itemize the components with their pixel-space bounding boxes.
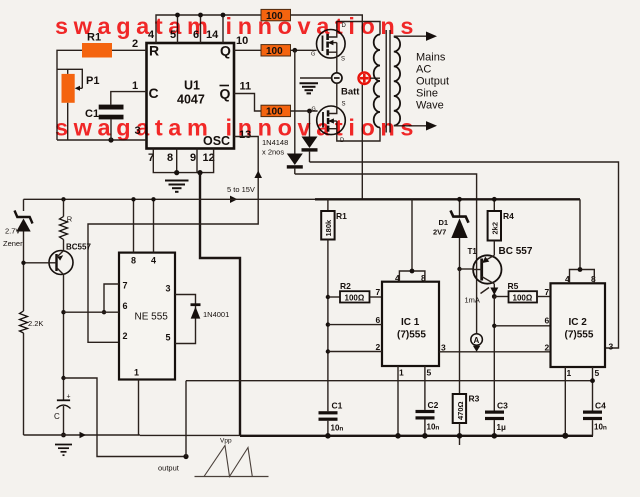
arrow right on supply rail: [230, 196, 238, 203]
diode D3 1N4148 lower: [287, 50, 303, 174]
ground symbol C: [55, 445, 72, 456]
MOSFET Q2 bottom: [312, 102, 346, 145]
svg-text:6: 6: [376, 315, 381, 325]
svg-text:A: A: [474, 336, 480, 345]
svg-text:T1: T1: [468, 247, 478, 256]
resistor R1 180k: [321, 199, 334, 239]
wire D1 down to R3: [459, 269, 461, 394]
svg-text:Q: Q: [220, 86, 231, 102]
wire Q2 drain to primary bottom: [337, 128, 380, 142]
node C1 bottom junction: [108, 137, 113, 142]
diode 1N4001: [191, 303, 201, 318]
svg-text:5: 5: [595, 368, 600, 378]
svg-text:C1: C1: [332, 401, 343, 411]
svg-text:x 2nos: x 2nos: [262, 148, 284, 157]
svg-text:R: R: [67, 215, 73, 224]
svg-text:(7)555: (7)555: [397, 330, 426, 341]
resistor R3 470: [453, 394, 466, 445]
node D1-base: [457, 267, 461, 271]
svg-text:Vpp: Vpp: [220, 438, 232, 445]
svg-text:10n: 10n: [594, 423, 607, 432]
wire pin14 stub: [222, 15, 224, 43]
svg-text:IC 1: IC 1: [401, 317, 420, 328]
svg-text:G: G: [312, 107, 316, 113]
wire plus to center tap: [370, 77, 380, 79]
node rail R: [61, 197, 65, 201]
svg-text:Zener: Zener: [3, 239, 23, 248]
svg-text:5 to 15V: 5 to 15V: [227, 185, 255, 194]
svg-text:AC: AC: [416, 64, 431, 76]
svg-text:C3: C3: [497, 401, 508, 411]
transformer core: [385, 30, 387, 133]
arrow up on pin13 drop: [254, 171, 262, 179]
capacitor C1 10n: [319, 401, 344, 436]
wire NE555 pin4 supply: [153, 199, 155, 252]
svg-text:Wave: Wave: [416, 100, 444, 112]
battery minus terminal: [332, 73, 342, 83]
svg-text:Output: Output: [416, 76, 449, 88]
wire C1 bottom: [110, 119, 112, 140]
svg-text:P1: P1: [86, 75, 99, 87]
svg-text:R3: R3: [469, 394, 480, 404]
svg-text:470Ω: 470Ω: [456, 401, 465, 420]
svg-text:BC 557: BC 557: [499, 246, 533, 257]
diode D4 1N4148 upper: [302, 111, 318, 162]
svg-text:10n: 10n: [427, 423, 440, 432]
capacitor C3 1u: [485, 401, 508, 436]
svg-text:4: 4: [151, 256, 156, 266]
wire IC1 pin3 to IC2 pin2: [439, 351, 551, 353]
svg-text:BC557: BC557: [66, 243, 91, 252]
svg-text:(7)555: (7)555: [565, 330, 594, 341]
wire NE555 pin8 supply: [133, 199, 135, 252]
svg-text:5: 5: [166, 333, 171, 343]
node pin14 top: [221, 13, 226, 18]
svg-text:8: 8: [131, 256, 136, 266]
node A marker: [471, 334, 483, 352]
bottom rail thin: [140, 434, 240, 436]
svg-text:D1: D1: [439, 218, 449, 227]
resistor 2.2K (zigzag): [20, 311, 28, 435]
svg-text:Q: Q: [220, 43, 231, 59]
wire pin5 stub: [177, 15, 179, 43]
node pin5 top: [175, 13, 180, 18]
wire pin6 line: [64, 311, 120, 313]
wire IC2 pin5 to C4: [592, 367, 594, 411]
wire P1 bottom lead: [67, 103, 69, 140]
wire 180k down to C1: [327, 240, 329, 412]
svg-text:Sine: Sine: [416, 88, 438, 100]
arrow on ground line: [80, 432, 87, 438]
wire IC1 pin2: [328, 351, 382, 353]
transistor T1 BC557: [473, 255, 501, 283]
svg-text:NE 555: NE 555: [135, 312, 169, 323]
svg-text:2: 2: [376, 342, 381, 352]
IC1 (7)555 body: [382, 282, 439, 366]
svg-text:1mA: 1mA: [465, 296, 480, 305]
svg-text:swagatam innovations: swagatam innovations: [55, 115, 419, 141]
wire pin6 stub: [200, 15, 202, 43]
svg-text:C: C: [54, 412, 60, 421]
node output: [183, 454, 188, 459]
potentiometer P1: [62, 74, 75, 103]
svg-text:C: C: [149, 85, 159, 101]
svg-text:2.7V: 2.7V: [5, 227, 20, 236]
wire secondary bottom output: [394, 125, 430, 127]
svg-text:8: 8: [591, 274, 596, 284]
svg-text:1: 1: [399, 368, 404, 378]
svg-text:3: 3: [609, 342, 614, 352]
svg-text:R5: R5: [508, 281, 519, 291]
svg-text:Batt: Batt: [341, 87, 360, 98]
wire P1 top jog: [57, 69, 82, 88]
wire secondary top output: [394, 35, 430, 37]
wire supply resistor right down to rail: [291, 15, 363, 199]
wire ground thick to bottom rail: [200, 173, 240, 436]
zener 2.7V: [15, 199, 33, 311]
wire pin11 to gate resistor: [234, 94, 261, 112]
waveform sawtooth: [195, 438, 269, 477]
wire Q1 drain to primary top: [337, 22, 380, 35]
wire T1 base to D1 line: [460, 268, 474, 270]
svg-text:6: 6: [123, 301, 128, 311]
wire Q1 source to battery minus: [336, 57, 338, 72]
wire P1 wiper arrow: [77, 87, 83, 89]
capacitor C1: [85, 105, 124, 120]
capacitor C2 10n: [416, 400, 440, 436]
svg-text:+: +: [67, 394, 71, 401]
wire pin10 to gate resistor: [234, 49, 261, 51]
wire C top to output: [64, 378, 187, 457]
svg-text:2V7: 2V7: [433, 228, 446, 237]
svg-text:2.2K: 2.2K: [28, 319, 43, 328]
capacitor C4 10n: [583, 401, 607, 436]
svg-text:3: 3: [441, 343, 446, 353]
bottom rail thick: [240, 435, 593, 437]
svg-text:2: 2: [132, 38, 138, 50]
svg-text:180k: 180k: [324, 219, 333, 237]
IC U1 4047 body: [147, 43, 235, 149]
ground line bottom left: [24, 434, 141, 436]
resistor R (zigzag): [60, 199, 68, 250]
svg-text:1: 1: [134, 368, 139, 378]
wire T1 collector down with 1mA arrow: [493, 284, 495, 297]
svg-text:7: 7: [376, 287, 381, 297]
ground 4047 bracket: [153, 149, 213, 173]
capacitor C electrolytic: [54, 394, 71, 436]
wire P1 top lead: [67, 69, 69, 74]
svg-text:U1: U1: [184, 79, 200, 93]
wire T1 collector to pin6 IC2 and C3: [493, 297, 495, 411]
wire gate1 node: [291, 49, 317, 51]
svg-text:5: 5: [427, 368, 432, 378]
svg-text:6: 6: [545, 316, 550, 326]
wire IC2 pin6: [494, 325, 550, 327]
svg-text:100Ω: 100Ω: [345, 294, 365, 303]
svg-text:R2: R2: [340, 281, 351, 291]
svg-text:9: 9: [190, 152, 196, 164]
resistor R4 2k2: [488, 197, 501, 255]
wire bottom to pin3: [57, 139, 147, 141]
supply rail 5-15V: [24, 198, 316, 200]
svg-text:8: 8: [167, 152, 173, 164]
wire IC1 pin5 to C2: [424, 366, 426, 410]
wire IC2 pin1 down: [564, 367, 566, 436]
svg-text:G: G: [311, 52, 315, 58]
resistor R5 100: [494, 291, 550, 302]
svg-text:4047: 4047: [177, 93, 205, 107]
wire IC1 pin6: [328, 324, 382, 326]
wire collector down: [63, 275, 65, 400]
wire pin13 to NE555 pin2: [88, 137, 258, 343]
svg-text:1μ: 1μ: [497, 423, 506, 432]
node C ground: [61, 433, 66, 438]
ground symbol battery: [300, 83, 319, 93]
wire gate2 node: [291, 110, 318, 112]
resistor 100 (Qbar gate): [261, 105, 291, 117]
resistor 100 (supply): [261, 9, 291, 21]
svg-text:10n: 10n: [331, 424, 344, 433]
wire R1 left down: [57, 50, 82, 140]
svg-text:C2: C2: [428, 400, 439, 410]
svg-text:11: 11: [240, 81, 252, 93]
svg-text:1N4001: 1N4001: [203, 310, 229, 319]
svg-text:R1: R1: [336, 211, 347, 221]
svg-text:IC 2: IC 2: [569, 317, 588, 328]
wire pin3 bracket: [175, 295, 196, 344]
node pin6 top: [198, 13, 203, 18]
wire R1 right to pin2: [112, 49, 147, 51]
svg-text:output: output: [158, 464, 180, 473]
resistor 100 (Q gate): [261, 45, 291, 57]
resistor R2 100: [328, 291, 382, 302]
IC2 (7)555 body: [551, 283, 606, 367]
MOSFET Q1 top: [311, 23, 347, 63]
wire top bus pins 4,5,6,14: [156, 15, 261, 43]
transistor BC557 left: [49, 251, 73, 275]
svg-text:swagatam innovations: swagatam innovations: [55, 13, 419, 39]
svg-text:2: 2: [545, 343, 550, 353]
battery plus terminal (red): [359, 72, 371, 84]
wire NE555 pin1 down: [138, 380, 140, 436]
zener D1 2V7: [451, 197, 469, 269]
transformer primary winding: [374, 35, 380, 128]
wire IC1 pin1 down: [397, 366, 399, 436]
svg-text:7: 7: [545, 287, 550, 297]
wire battery to ground: [300, 77, 332, 79]
svg-text:S: S: [342, 102, 346, 108]
wire battery minus to Q2 source: [336, 83, 338, 105]
svg-text:3: 3: [166, 284, 171, 294]
svg-text:R4: R4: [503, 211, 514, 221]
IC NE555 body: [119, 253, 175, 380]
svg-text:2: 2: [123, 331, 128, 341]
wire IC2 supply bracket: [570, 270, 595, 284]
wire pin1 to C1: [111, 92, 147, 105]
svg-text:R: R: [149, 43, 159, 59]
svg-text:100Ω: 100Ω: [513, 294, 533, 303]
svg-text:C4: C4: [595, 401, 606, 411]
ground symbol 4047: [165, 181, 189, 192]
svg-text:1: 1: [567, 368, 572, 378]
wire D4 to IC2 pin3: [310, 162, 619, 348]
svg-text:2k2: 2k2: [491, 222, 500, 235]
svg-text:1: 1: [132, 80, 138, 92]
wire D3 to node A drop: [295, 174, 477, 334]
wire base to zener line: [24, 262, 50, 264]
svg-text:7: 7: [123, 281, 128, 291]
wire output riser to 381-rail: [185, 381, 187, 457]
resistor R1: [82, 43, 112, 58]
wire pin7-pin6 bracket: [104, 284, 119, 312]
svg-text:S: S: [341, 57, 345, 63]
svg-text:100: 100: [266, 46, 283, 57]
bottom rail junction dots: [325, 433, 331, 439]
rail mid (pin5 bus): [186, 380, 593, 382]
svg-text:Mains: Mains: [416, 52, 446, 64]
wire IC1 supply bracket: [399, 271, 425, 282]
transformer secondary winding: [394, 37, 400, 126]
